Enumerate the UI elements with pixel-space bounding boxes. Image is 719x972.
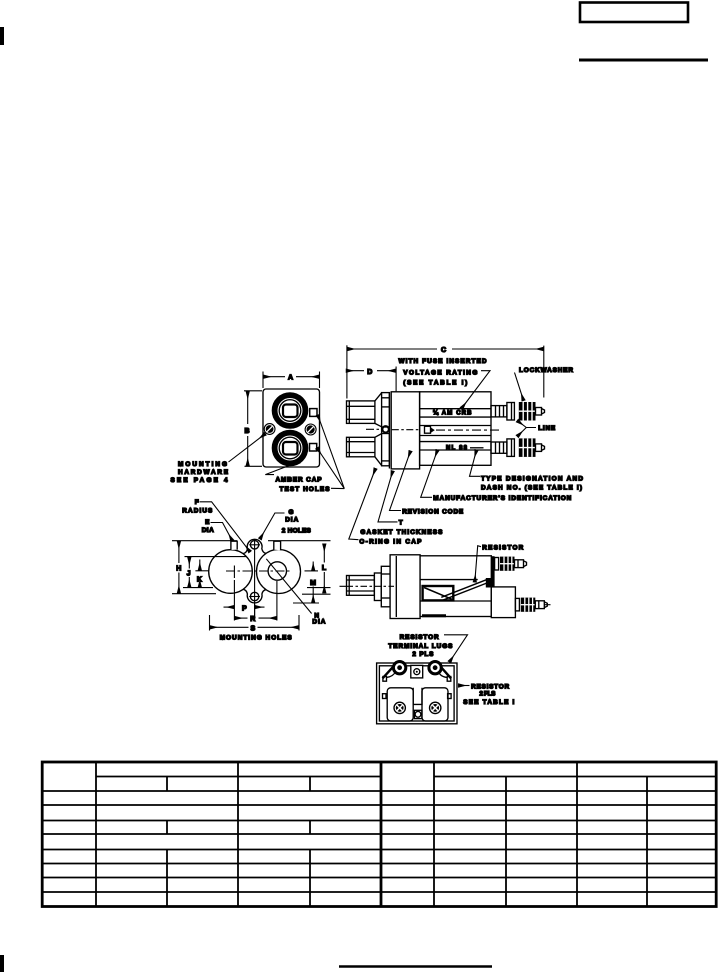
center bottom square bbox=[414, 710, 422, 718]
svg-text:R: R bbox=[250, 616, 255, 623]
dimension A extension lines bbox=[262, 372, 264, 389]
svg-text:F: F bbox=[195, 499, 199, 506]
square bump left bbox=[231, 541, 237, 550]
leader amber cap bbox=[265, 462, 299, 475]
svg-text:B: B bbox=[245, 428, 250, 435]
table header row line y776.5 bbox=[96, 776, 381, 778]
lug wire arc right bbox=[439, 672, 447, 678]
table column line x96 bbox=[95, 762, 97, 907]
mounting ear left bbox=[264, 424, 275, 435]
dimension R bbox=[235, 617, 248, 619]
horizontal centerline bbox=[226, 570, 292, 572]
svg-text:DIA: DIA bbox=[285, 516, 298, 523]
table outer border bbox=[42, 762, 716, 907]
svg-text:M: M bbox=[310, 580, 316, 587]
cap stud top bbox=[347, 401, 375, 424]
amber cap top outer ring bbox=[275, 395, 306, 426]
ext line y570.9 right bbox=[305, 570, 319, 572]
empty stamp box top-right bbox=[580, 3, 688, 23]
leader terminal lugs bbox=[444, 635, 468, 662]
svg-text:HARDWARE: HARDWARE bbox=[178, 469, 229, 476]
cross ticks on holes bbox=[249, 544, 260, 546]
centerline left bbox=[340, 585, 413, 587]
leader test hole bottom bbox=[317, 448, 344, 489]
flange plate bbox=[390, 555, 420, 619]
test hole top bbox=[310, 409, 317, 417]
terminal upper: lockwasher blocks bbox=[500, 557, 515, 571]
gasket line bbox=[391, 566, 393, 618]
leader E dia bbox=[211, 523, 233, 541]
leader test holes tick bbox=[331, 487, 344, 489]
svg-text:TEST HOLES: TEST HOLES bbox=[280, 486, 331, 493]
amber cap top square hole bbox=[283, 405, 298, 418]
svg-text:E: E bbox=[205, 519, 210, 526]
svg-text:LINE: LINE bbox=[538, 425, 556, 432]
svg-text:P: P bbox=[242, 605, 247, 612]
center channel bbox=[413, 688, 422, 705]
table row line y820.5 bbox=[42, 820, 716, 822]
centerline over cap bbox=[347, 585, 395, 587]
svg-text:VOLTAGE RATING: VOLTAGE RATING bbox=[403, 369, 477, 376]
svg-text:(SEE TABLE I): (SEE TABLE I) bbox=[403, 380, 467, 387]
leader N dia bbox=[266, 559, 311, 614]
top mounting hole bbox=[250, 541, 258, 549]
N hole bbox=[268, 562, 286, 580]
svg-text:L: L bbox=[322, 565, 327, 572]
lug plate bbox=[492, 556, 495, 600]
svg-text:H: H bbox=[176, 565, 181, 572]
bottom boss arc bbox=[243, 589, 266, 603]
center bottom circle bbox=[415, 711, 421, 717]
svg-text:SEE PAGE 4: SEE PAGE 4 bbox=[171, 477, 228, 484]
footer centered rule bbox=[339, 965, 492, 967]
body groove lines bbox=[420, 408, 491, 410]
body internal line lower bbox=[420, 600, 491, 602]
corner brace left bbox=[383, 667, 394, 679]
svg-text:LOCKWASHER: LOCKWASHER bbox=[519, 367, 573, 374]
svg-text:NL 88: NL 88 bbox=[446, 445, 468, 451]
leader revision code bbox=[390, 451, 411, 511]
svg-text:D: D bbox=[367, 369, 372, 376]
terminal upper: washer bbox=[495, 558, 499, 571]
ext line y556.6 left bbox=[185, 556, 247, 558]
ext line y587.6 right bbox=[307, 587, 331, 589]
ext line y603 right bbox=[293, 602, 319, 604]
mounting screw right bbox=[307, 425, 315, 433]
page margin tab bottom-left bbox=[0, 955, 4, 972]
table column line x506 bbox=[505, 777, 507, 907]
lug wire arc left bbox=[387, 672, 396, 678]
tick under type marking bbox=[470, 447, 484, 449]
leader mounting hardware bbox=[229, 434, 266, 462]
svg-text:2 HOLES: 2 HOLES bbox=[282, 528, 312, 535]
body internal line upper bbox=[420, 579, 478, 581]
svg-text:RADIUS: RADIUS bbox=[182, 508, 213, 515]
table row line y877.5 bbox=[42, 877, 716, 879]
dimension C line bbox=[348, 348, 438, 350]
table column line x647 bbox=[646, 777, 648, 907]
svg-text:RESISTOR: RESISTOR bbox=[400, 634, 439, 641]
resistor element body bbox=[441, 579, 489, 600]
edge square top-right bbox=[447, 677, 451, 682]
witness line S left bbox=[209, 615, 211, 631]
ext line top y540.7 bbox=[172, 540, 237, 542]
mounting screw left bbox=[266, 425, 274, 433]
amber cap bottom outer ring bbox=[275, 433, 306, 464]
dimension J bbox=[188, 557, 190, 568]
svg-text:C: C bbox=[441, 347, 446, 354]
leader resistor bbox=[475, 546, 481, 582]
leader voltage rating bbox=[462, 371, 491, 409]
leader gasket thickness bbox=[378, 471, 398, 522]
terminal lower: lockwasher blocks bbox=[521, 598, 536, 612]
table row line y892 bbox=[42, 891, 716, 893]
dimension B line with arrows bbox=[247, 391, 249, 424]
svg-text:DIA: DIA bbox=[202, 527, 214, 534]
terminal lug right bbox=[429, 662, 441, 674]
svg-text:T: T bbox=[399, 519, 403, 526]
svg-text:2 PLS: 2 PLS bbox=[412, 651, 434, 658]
dimension L bbox=[323, 544, 325, 563]
top boss arc bbox=[243, 539, 266, 553]
corner brace right bbox=[441, 667, 452, 679]
leader line bracket bbox=[517, 421, 536, 428]
fuse window bbox=[425, 426, 431, 433]
centerline left dashes bbox=[366, 428, 379, 430]
dimension A line with arrows bbox=[264, 376, 285, 378]
svg-text:GASKET THICKNESS: GASKET THICKNESS bbox=[360, 529, 443, 536]
dimension S bbox=[210, 626, 248, 628]
witness line left lobe center down bbox=[233, 580, 235, 621]
svg-text:J: J bbox=[187, 571, 191, 578]
svg-text:S: S bbox=[251, 625, 256, 632]
svg-text:DASH NO. (SEE TABLE I): DASH NO. (SEE TABLE I) bbox=[481, 484, 582, 491]
leader resistor 2pls bbox=[459, 685, 470, 687]
table row line y834 bbox=[42, 833, 716, 835]
terminal lower: washer bbox=[515, 598, 519, 611]
ext line y570.8 left bbox=[195, 570, 208, 572]
bottom mounting hole bbox=[250, 592, 258, 600]
svg-text:MOUNTING: MOUNTING bbox=[178, 461, 227, 468]
terminal lower: threaded end bbox=[535, 601, 544, 609]
witness line right lobe center down bbox=[276, 581, 278, 621]
table row line y849.5 bbox=[42, 849, 716, 851]
page margin tab top-left bbox=[0, 27, 4, 45]
screw left bbox=[394, 702, 405, 713]
terminal top: lockwasher bbox=[519, 402, 536, 421]
holder front band bbox=[382, 393, 390, 466]
mounting ear right bbox=[305, 424, 316, 435]
ext line bottom y593.7 bbox=[172, 593, 216, 595]
svg-text:RESISTOR: RESISTOR bbox=[482, 544, 523, 551]
terminal lower tip tick bbox=[545, 604, 551, 606]
bottom view outer rect bbox=[377, 663, 457, 724]
centerline through body bbox=[436, 429, 500, 431]
terminal bottom: nut bbox=[507, 439, 515, 457]
holder body bbox=[420, 392, 491, 466]
centerline through flange bbox=[392, 429, 419, 431]
table row line y863.5 bbox=[42, 863, 716, 865]
ext line y594.2 right bbox=[302, 593, 331, 595]
lower right extension bbox=[491, 587, 515, 618]
amber cap bottom square hole bbox=[283, 442, 298, 455]
svg-text:TERMINAL LUGS: TERMINAL LUGS bbox=[388, 643, 453, 650]
terminal upper: threaded end bbox=[515, 560, 524, 568]
amber cap top inner ring bbox=[279, 400, 301, 422]
dimension P bbox=[224, 606, 235, 608]
edge square top-left bbox=[383, 677, 387, 682]
screw right bbox=[430, 702, 441, 713]
table column line x238 bbox=[237, 762, 239, 907]
dimension K bbox=[199, 560, 201, 571]
leader o-ring bbox=[349, 469, 376, 540]
svg-text:RESISTOR: RESISTOR bbox=[471, 684, 509, 691]
svg-text:REVISION CODE: REVISION CODE bbox=[402, 509, 464, 516]
svg-text:2 PLS: 2 PLS bbox=[479, 691, 496, 698]
table subcolumn x167 segments bbox=[166, 777, 168, 792]
cap flare bottom bbox=[375, 434, 382, 438]
edge square mid-right bbox=[448, 694, 452, 699]
test hole bottom bbox=[310, 444, 317, 452]
witness line S right bbox=[298, 615, 300, 631]
terminal top: threaded end bbox=[536, 408, 542, 416]
body bottom thick segment bbox=[422, 614, 446, 617]
dimension B extension lines bbox=[244, 390, 262, 392]
terminal bottom: threaded end bbox=[536, 444, 542, 452]
body bbox=[420, 556, 491, 617]
leader type designation bbox=[470, 450, 481, 476]
bottom view inner rect bbox=[379, 666, 454, 721]
resistor end blob bbox=[486, 578, 494, 588]
ext line y587.6 left bbox=[183, 587, 213, 589]
dimension D line bbox=[346, 370, 364, 372]
outline left lobe bbox=[209, 550, 253, 594]
clip diagonal bbox=[424, 588, 452, 600]
square bump right bbox=[274, 541, 281, 550]
leader F radius bbox=[200, 502, 251, 552]
cap stud bottom bbox=[347, 437, 375, 457]
center square with hole bbox=[411, 665, 423, 678]
leader test hole top bbox=[318, 415, 345, 489]
cap step bbox=[374, 573, 381, 601]
amber cap bottom inner ring bbox=[279, 437, 301, 459]
left lobe vertical centerline bbox=[233, 566, 235, 579]
leader G dia bbox=[260, 513, 285, 539]
terminal lug left bbox=[393, 662, 405, 674]
center boss circle bbox=[382, 426, 388, 432]
leader manufacturers identification bbox=[421, 450, 438, 497]
mounting flange plate bbox=[391, 392, 419, 469]
cap stud bbox=[347, 576, 375, 596]
svg-text:O-RING IN CAP: O-RING IN CAP bbox=[359, 539, 422, 546]
table column line x577 bbox=[576, 762, 578, 907]
svg-text:AMBER CAP: AMBER CAP bbox=[276, 476, 323, 483]
svg-text:G: G bbox=[289, 509, 294, 516]
svg-text:MOUNTING HOLES: MOUNTING HOLES bbox=[220, 635, 293, 642]
clip pocket right bbox=[422, 688, 448, 721]
dimension D right extension bbox=[395, 367, 397, 392]
terminal bottom: lockwasher bbox=[519, 438, 536, 457]
witness line holes centerline down bbox=[254, 604, 256, 621]
edge square mid-left bbox=[383, 694, 387, 699]
table row line y805 bbox=[42, 804, 716, 806]
table column line x434 bbox=[433, 762, 435, 907]
svg-text:WITH FUSE INSERTED: WITH FUSE INSERTED bbox=[399, 358, 487, 365]
terminal top: stud bbox=[491, 406, 507, 417]
terminal bottom: stud bbox=[491, 442, 507, 453]
resistor clip frame bbox=[423, 586, 454, 600]
dimension C extension lines bbox=[346, 345, 348, 398]
leader lockwasher bbox=[515, 373, 524, 401]
cap flare top bbox=[375, 393, 382, 401]
svg-text:SEE TABLE I: SEE TABLE I bbox=[463, 699, 514, 706]
svg-text:K: K bbox=[197, 576, 202, 583]
svg-text:TYPE DESIGNATION AND: TYPE DESIGNATION AND bbox=[481, 475, 583, 482]
outline right lobe bbox=[257, 550, 301, 594]
cap skirt bbox=[381, 566, 390, 607]
terminal top: nut bbox=[507, 403, 515, 421]
svg-text:DIA: DIA bbox=[312, 619, 325, 626]
vertical centerline through holes bbox=[254, 539, 256, 620]
gasket double line bbox=[388, 392, 390, 468]
table subcolumn x310 segments bbox=[309, 777, 311, 792]
header rule top-right bbox=[579, 59, 708, 62]
svg-text:A: A bbox=[288, 375, 293, 382]
table thick center divider bbox=[380, 762, 383, 907]
dimension M bbox=[312, 562, 314, 571]
svg-text:MANUFACTURER'S IDENTIFICATION: MANUFACTURER'S IDENTIFICATION bbox=[433, 495, 571, 502]
clip pocket left bbox=[387, 688, 413, 721]
dimension H bbox=[178, 541, 180, 563]
svg-text:¼ AM CRB: ¼ AM CRB bbox=[433, 409, 472, 416]
front view body plate bbox=[263, 389, 320, 467]
table row line y791 bbox=[42, 790, 716, 792]
